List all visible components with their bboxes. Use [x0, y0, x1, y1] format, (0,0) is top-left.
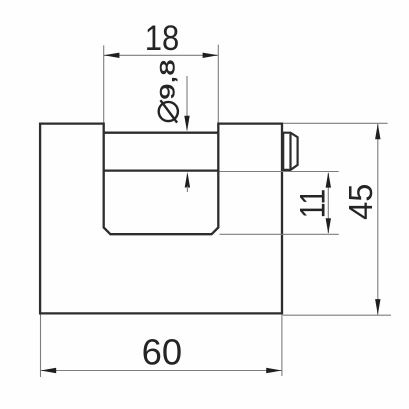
dim 11 arrow up — [326, 172, 331, 188]
dia 9.8 leader lower tail — [186, 186, 188, 192]
dim 18 arrow left — [104, 53, 120, 58]
dia 9.8 arrow lower (up) — [185, 172, 190, 188]
dim 45 extension line bottom — [283, 314, 391, 316]
dim 45 arrow down — [375, 299, 380, 315]
dim 18 extension line right — [217, 45, 219, 123]
dim 45 arrow up — [375, 124, 380, 140]
svg-text:60: 60 — [142, 332, 183, 373]
dim 11 extension line top — [220, 171, 339, 173]
dim 60 extension line right — [281, 315, 283, 377]
padlock body outline — [40, 124, 282, 314]
bolt bar top edge — [104, 132, 219, 134]
svg-text:45: 45 — [342, 184, 379, 220]
dim 60 extension line left — [40, 315, 42, 378]
dim 11 dimension line — [327, 173, 329, 233]
dim 11 arrow down — [326, 218, 331, 234]
dia symbol circle — [159, 102, 178, 121]
dim 60 arrow left — [41, 368, 57, 373]
dim 11 extension line bottom — [220, 233, 339, 235]
pin chamfer inner line — [289, 133, 291, 170]
svg-text:9,8: 9,8 — [156, 59, 180, 99]
dim 45 dimension line — [377, 124, 379, 315]
dia symbol slash — [160, 100, 177, 122]
dim 18 arrow right — [203, 53, 219, 58]
svg-text:11: 11 — [294, 189, 333, 219]
dia 9.8 arrow upper (down) — [184, 116, 189, 132]
svg-text:18: 18 — [145, 19, 180, 58]
dim 18 extension line left — [103, 45, 105, 122]
bolt bar bottom edge — [104, 169, 219, 171]
pin tip outline — [283, 133, 297, 170]
dim 45 extension line top — [283, 122, 388, 124]
dim 60 arrow right — [266, 368, 282, 373]
dia 9.8 leader upper — [186, 76, 188, 130]
dim 18 dimension line — [104, 54, 218, 56]
dim 60 dimension line — [41, 370, 282, 372]
